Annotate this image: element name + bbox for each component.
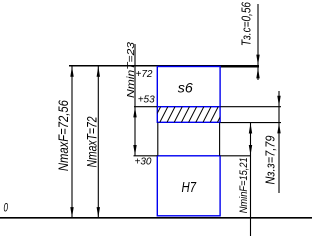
node hatched zone bbox=[157, 107, 220, 123]
dimension Nz.z=7,79 bbox=[264, 91, 281, 193]
wire +30 level right extension bbox=[221, 155, 252, 157]
wire +30 level left extension bbox=[134, 155, 158, 157]
svg-text:NmaxT=72: NmaxT=72 bbox=[83, 116, 99, 167]
wire 72 level right extension bbox=[220, 66, 259, 68]
dimension NminT=23 bbox=[126, 41, 137, 155]
svg-text:+72: +72 bbox=[136, 69, 153, 80]
svg-text:NmaxF=72,56: NmaxF=72,56 bbox=[56, 100, 71, 171]
wire top line 72.56 level bbox=[69, 65, 259, 67]
svg-text:s6: s6 bbox=[178, 80, 193, 96]
wire 45.21 level right extension bbox=[221, 122, 282, 124]
node H7 tolerance box bbox=[157, 156, 220, 216]
wire zero line bbox=[0, 217, 312, 219]
node s6 tolerance box bbox=[157, 67, 220, 107]
svg-text:Nз.з=7,79: Nз.з=7,79 bbox=[264, 135, 278, 184]
wire left vertical connector bbox=[157, 123, 159, 156]
wire right vertical connector bbox=[219, 123, 221, 156]
svg-text:NminF=15,21: NminF=15,21 bbox=[238, 157, 250, 213]
dimension Tz.s=0,56 bbox=[238, 1, 259, 80]
dimension NminF=15,21 bbox=[238, 123, 252, 236]
dimension NmaxT=72 bbox=[83, 65, 100, 218]
svg-text:H7: H7 bbox=[182, 179, 197, 196]
svg-text:NminT=23: NminT=23 bbox=[126, 41, 137, 98]
svg-text:0: 0 bbox=[4, 201, 9, 215]
svg-text:Тз.с=0,56: Тз.с=0,56 bbox=[238, 1, 253, 46]
wire +53 level left extension bbox=[134, 106, 157, 108]
dimension NmaxF=72,56 bbox=[56, 65, 74, 218]
svg-text:+30: +30 bbox=[135, 157, 152, 168]
svg-text:+53: +53 bbox=[138, 95, 155, 106]
wire +53 level right extension bbox=[221, 106, 282, 108]
